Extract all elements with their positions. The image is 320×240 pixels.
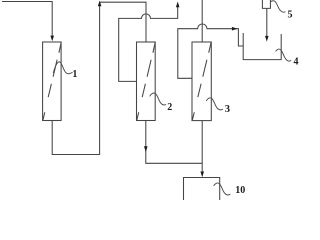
svg-text:3: 3 [225,104,230,115]
svg-text:1: 1 [72,69,77,80]
svg-text:2: 2 [167,102,172,113]
svg-text:4: 4 [294,57,299,68]
svg-text:5: 5 [288,10,293,21]
svg-text:10: 10 [235,185,245,196]
